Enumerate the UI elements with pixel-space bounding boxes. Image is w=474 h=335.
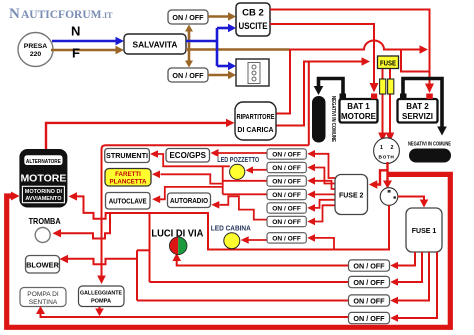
svg-text:NEGATIVI IN COMUNE: NEGATIVI IN COMUNE: [330, 96, 336, 142]
switch ON/OFF top (220V): [168, 10, 208, 24]
wire branch to tromba horn: [53, 213, 111, 239]
wire branch to blower: [60, 255, 138, 264]
svg-text:PLANCETTA: PLANCETTA: [109, 179, 147, 186]
eco/gps box: [166, 149, 210, 163]
switch column ON/OFF 5: [267, 203, 306, 213]
wire to faretti plancetta: [152, 171, 223, 184]
autoradio box: [168, 193, 211, 208]
fuse holder 2: [388, 79, 394, 94]
wire fuse2 fan to switch1: [307, 150, 335, 178]
wire N (blue) presa to salvavita: [52, 24, 124, 46]
svg-text:SERVIZI: SERVIZI: [402, 112, 433, 121]
wire service feed riser to distribution frame: [308, 62, 310, 146]
wire switch4 output: [223, 193, 267, 195]
led pozzetto lamp: [230, 164, 245, 179]
svg-text:ON / OFF: ON / OFF: [272, 179, 301, 186]
wire blue salvavita to CB2 and outlet: [186, 24, 236, 70]
wire fuse2 fan to switch6: [307, 205, 335, 225]
wire fuse1 to switch B: [390, 252, 422, 286]
svg-text:220: 220: [30, 51, 42, 58]
wire junction vertical: [222, 166, 224, 194]
terminal BAT2 negative: [400, 94, 407, 100]
wire CB2 output 1 to BAT2 positive: [270, 10, 434, 94]
arrow bus into motore: [11, 192, 20, 201]
FUSE 2 box: [335, 175, 368, 215]
svg-text:CB 2: CB 2: [242, 8, 264, 19]
svg-text:ON / OFF: ON / OFF: [272, 236, 301, 243]
wire key switch to starter motor (long route): [69, 192, 390, 249]
wire battery switch feeders through fuses: [378, 58, 394, 142]
luci di via navigation light: [151, 228, 203, 255]
svg-text:ON / OFF: ON / OFF: [353, 261, 385, 270]
svg-text:AUTOCLAVE: AUTOCLAVE: [109, 197, 147, 206]
bottom switch ON/OFF B: [349, 276, 390, 287]
wire switch to luci di via: [172, 253, 348, 266]
svg-text:FUSE 2: FUSE 2: [339, 193, 364, 200]
led cabina lamp: [224, 233, 240, 249]
svg-text:NEGATIVI IN COMUNE: NEGATIVI IN COMUNE: [408, 142, 451, 148]
switch column ON/OFF 1: [267, 149, 306, 159]
wire fuse1 to switch C: [390, 252, 429, 304]
wire to autoclave: [152, 187, 223, 203]
wire fuse1 to switch D: [390, 252, 437, 322]
terminal BAT2 positive: [426, 94, 433, 100]
negative common bar right: [408, 142, 451, 163]
svg-text:LED CABINA: LED CABINA: [211, 224, 251, 233]
battery selector switch 1 2 BOTH: [374, 138, 400, 164]
wire switch3 output: [223, 180, 267, 182]
outlet socket box: [236, 59, 269, 86]
wire switch C output: [137, 300, 349, 302]
wire fuse2 fan to switch4: [307, 191, 335, 199]
svg-text:STRUMENTI: STRUMENTI: [106, 151, 148, 160]
autoclave box: [106, 193, 151, 210]
wire float switch to bilge pump: [36, 306, 349, 317]
wire key line to switch7: [307, 234, 334, 249]
fuse box: [378, 56, 399, 69]
strumenti box: [105, 149, 150, 163]
wire key switch to FUSE1: [398, 197, 429, 208]
svg-text:1: 1: [380, 145, 383, 151]
wire fuse1 to switch A: [390, 252, 415, 269]
salvavita (RCD breaker): [124, 34, 186, 54]
svg-text:LED POZZETTO: LED POZZETTO: [217, 155, 259, 164]
wire led pozzetto to strumenti: [150, 150, 230, 166]
svg-text:N: N: [71, 24, 80, 39]
wire selector stub down: [386, 162, 388, 182]
switch ON/OFF bottom (220V): [168, 68, 208, 82]
wire BAT1 negative to common negative bar: [314, 79, 343, 96]
wire switch2 to led pozzetto: [246, 166, 268, 173]
bottom switch ON/OFF A: [349, 260, 390, 271]
ripartitore di carica box: [235, 102, 276, 140]
switch column ON/OFF 2: [267, 162, 306, 172]
battery BAT2 SERVIZI: [398, 99, 438, 123]
svg-text:BLOWER: BLOWER: [26, 261, 60, 270]
wire CB2 output 2 to BAT1 positive: [270, 24, 379, 93]
svg-text:ON / OFF: ON / OFF: [353, 296, 385, 305]
wire brown salvavita output to charge node: [186, 48, 290, 51]
wire switch1 to eco/gps: [211, 149, 268, 157]
svg-text:ON / OFF: ON / OFF: [353, 314, 385, 323]
CB2 uscite box: [236, 3, 270, 36]
wire ripartitore output 2 to BAT1 line: [276, 57, 370, 125]
bottom switch ON/OFF C: [349, 295, 390, 306]
svg-text:RIPARTITORE: RIPARTITORE: [237, 114, 275, 121]
galleggiante pompa box: [79, 286, 125, 307]
fuse holder 1: [380, 79, 386, 94]
pompa di sentina box: [20, 288, 66, 307]
svg-text:PRESA: PRESA: [24, 43, 48, 50]
wire fuse2 fan to switch3: [307, 177, 335, 189]
svg-text:GALLEGGIANTE: GALLEGGIANTE: [80, 291, 122, 297]
svg-text:BAT 2: BAT 2: [406, 102, 429, 111]
svg-text:AVVIAMENTO: AVVIAMENTO: [25, 196, 62, 202]
key switch circle: [380, 188, 398, 206]
arrow into key switch: [383, 181, 392, 189]
wire charge line to BAT2 with hop: [290, 41, 430, 72]
wire branch down left column: [137, 214, 150, 301]
svg-text:SALVAVITA: SALVAVITA: [133, 40, 178, 50]
svg-text:F: F: [72, 46, 80, 61]
svg-text:DI CARICA: DI CARICA: [237, 127, 273, 134]
svg-text:ON / OFF: ON / OFF: [172, 71, 204, 80]
svg-text:MOTORE: MOTORE: [20, 173, 66, 185]
svg-text:FUSE: FUSE: [380, 61, 396, 68]
engine block (alternatore / motore): [19, 149, 67, 208]
svg-text:USCITE: USCITE: [239, 21, 268, 32]
switch column ON/OFF 3: [267, 176, 306, 186]
alternator charge wire to ripartitore: [46, 119, 235, 149]
wire always-on bilge frame feed: [97, 145, 309, 284]
wire brown ON/OFF bottom to outlet: [208, 71, 236, 79]
svg-text:BOTH: BOTH: [379, 155, 395, 161]
svg-text:ON / OFF: ON / OFF: [272, 165, 301, 172]
svg-text:TROMBA: TROMBA: [29, 217, 61, 226]
presa 220 plug source: [18, 33, 53, 67]
wire selector output to FUSE2: [369, 170, 389, 188]
wire fuse2 fan to switch5: [307, 200, 335, 212]
svg-text:BAT 1: BAT 1: [347, 102, 370, 111]
svg-text:MOTORE: MOTORE: [341, 112, 377, 121]
FUSE 1 box: [406, 208, 442, 252]
wire switch B output: [150, 281, 349, 283]
svg-text:.IT: .IT: [102, 11, 113, 20]
svg-text:ON / OFF: ON / OFF: [272, 219, 301, 226]
svg-text:N: N: [9, 6, 20, 22]
svg-text:ON / OFF: ON / OFF: [272, 206, 301, 213]
svg-text:ALTERNATORE: ALTERNATORE: [26, 159, 61, 165]
tromba horn: [29, 217, 61, 243]
wire fuse2 fan to switch2: [307, 164, 335, 184]
svg-text:AUTICFORUM: AUTICFORUM: [21, 9, 102, 21]
svg-text:ON / OFF: ON / OFF: [172, 13, 204, 22]
switch column ON/OFF 7: [267, 233, 306, 243]
wire F (brown) presa to salvavita: [51, 46, 124, 61]
wire BAT2 negative to right negative bar: [403, 79, 447, 136]
svg-text:AUTORADIO: AUTORADIO: [170, 196, 208, 205]
wire ripartitore output 1 riser: [276, 50, 290, 114]
battery BAT1 MOTORE: [340, 99, 378, 123]
wire brown vertical salvavita to both ON/OFF switches: [185, 25, 193, 68]
terminal BAT1 negative: [340, 94, 347, 100]
svg-text:POMPA: POMPA: [91, 299, 111, 305]
svg-text:2: 2: [391, 145, 394, 151]
svg-text:MOTORINO DI: MOTORINO DI: [25, 189, 63, 195]
wire brown ON/OFF top to CB2: [208, 12, 236, 20]
svg-text:ON / OFF: ON / OFF: [272, 152, 301, 159]
main positive bus (thick perimeter): [7, 174, 451, 327]
svg-text:ECO/GPS: ECO/GPS: [169, 151, 206, 160]
svg-text:FARETTI: FARETTI: [115, 171, 141, 178]
svg-text:FUSE 1: FUSE 1: [412, 228, 437, 235]
bottom switch ON/OFF D: [349, 312, 390, 323]
svg-text:ON / OFF: ON / OFF: [272, 192, 301, 199]
negative common bar left: [312, 96, 336, 143]
logo NauticForum.it: [9, 6, 113, 22]
svg-text:ON / OFF: ON / OFF: [353, 278, 385, 287]
svg-text:POMPA DI: POMPA DI: [27, 291, 59, 298]
wire switch6 to autoradio staircase: [211, 196, 267, 219]
switch column ON/OFF 6: [267, 216, 306, 226]
wire switch7 to led cabina: [241, 236, 267, 244]
faretti plancetta box: [105, 169, 151, 187]
blower box: [26, 256, 60, 274]
svg-text:SENTINA: SENTINA: [29, 299, 58, 306]
switch column ON/OFF 4: [267, 189, 306, 199]
terminal BAT1 positive: [371, 94, 377, 100]
